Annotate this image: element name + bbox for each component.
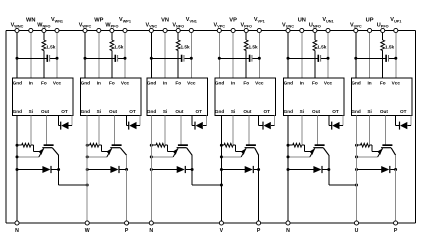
diode D1A over-temp output (59, 125, 61, 127)
wire main emitter to Gnd line (357, 156, 378, 158)
junction dot cap to Gnd line (218, 57, 221, 60)
IC U4 gate driver (V P-side) (215, 78, 275, 116)
svg-text:Gnd: Gnd (13, 109, 23, 114)
svg-text:Fo: Fo (41, 80, 47, 85)
terminal circle N (149, 221, 153, 225)
capacitor C6 decoupling VUP1 to VUPC (356, 57, 386, 59)
svg-text:1.5k: 1.5k (114, 44, 124, 49)
wire UNFO vertical upper segment (314, 31, 316, 41)
wire collector vertical (191, 155, 193, 169)
svg-text:P: P (257, 228, 261, 234)
wire main emitter to Gnd line (17, 156, 39, 158)
IC U3 gate driver (V N-side) (147, 78, 207, 116)
wire WP input vertical (98, 31, 100, 79)
resistor R6A 1.5k on UPFO line (381, 40, 385, 51)
resistor R3A 1.5k on VNFO line (176, 40, 180, 51)
wire Si pin vertical (98, 116, 100, 146)
svg-text:Vcc: Vcc (53, 80, 62, 85)
wire main emitter to Gnd line (151, 156, 173, 158)
svg-text:1.5k: 1.5k (181, 44, 191, 49)
junction dot emitter wire on Gnd line (150, 155, 153, 158)
junction dot cap to Gnd line (287, 57, 290, 60)
svg-text:Si: Si (163, 109, 167, 114)
svg-text:N: N (286, 228, 290, 234)
svg-text:Si: Si (300, 109, 304, 114)
svg-text:Fo: Fo (312, 80, 318, 85)
terminal circle P (394, 221, 398, 225)
svg-text:N: N (149, 228, 153, 234)
diode D5B freewheeling (288, 169, 314, 171)
wire VPFO vertical upper segment (245, 31, 247, 41)
junction dot cap to Gnd line (150, 57, 153, 60)
terminal circle VUPC (354, 28, 358, 32)
junction dot freewheel anode on Gnd line (355, 168, 358, 171)
wire Si pin vertical (164, 116, 166, 146)
wire sense jog to emitter (31, 144, 34, 146)
junction dot cap to Gnd line (16, 57, 19, 60)
svg-text:V: V (220, 228, 224, 234)
terminal circle VPFO (244, 28, 248, 32)
junction dot cap to Vcc line (124, 57, 127, 60)
svg-text:Gnd: Gnd (81, 109, 91, 114)
svg-text:Out: Out (380, 109, 389, 114)
wire UP input vertical (369, 31, 371, 79)
svg-text:Si: Si (367, 109, 371, 114)
svg-text:Vcc: Vcc (392, 80, 401, 85)
svg-text:OT: OT (264, 109, 271, 114)
capacitor C3 decoupling VVN1 to VVNC (151, 57, 181, 59)
junction dot sense wire on Gnd line (150, 144, 153, 147)
svg-text:OT: OT (196, 109, 203, 114)
junction dot phase node (86, 184, 89, 187)
wire OT pin right stub (273, 116, 275, 126)
wire collector vertical (258, 155, 260, 169)
resistor R2A 1.5k on WPFO line (110, 40, 114, 51)
wire collector down to P terminal (126, 170, 128, 224)
diode D1B freewheeling (17, 169, 43, 171)
wire sense jog to emitter (233, 144, 236, 146)
wire Gnd/phase line down to U terminal (356, 116, 358, 223)
junction dot freewheel cathode on collector (394, 168, 397, 171)
svg-text:Si: Si (231, 109, 235, 114)
wire sense jog to emitter (99, 144, 102, 146)
terminal circle P (125, 221, 129, 225)
diode D5A over-temp output (329, 125, 332, 127)
terminal circle VN (163, 28, 167, 32)
wire Out pin vertical (gate drive) (248, 116, 250, 145)
transistor Q2 IGBT (W P-side) (107, 144, 127, 157)
svg-text:Out: Out (312, 109, 321, 114)
wire VVNC vertical (Gnd pin to top rail) (150, 31, 152, 79)
capacitor C4 decoupling VVP1 to VVPC (219, 57, 249, 59)
svg-text:Vcc: Vcc (255, 80, 264, 85)
wire sense jog to emitter (370, 144, 373, 146)
junction dot cap to Vcc line (394, 57, 397, 60)
junction dot sense wire on Gnd line (86, 144, 89, 147)
wire right edge (top rail to bottom bus) (414, 31, 416, 224)
svg-text:In: In (97, 80, 101, 85)
diode D4B freewheeling (221, 169, 245, 171)
wire Gnd sense rail from Gnd line (221, 144, 224, 146)
wire main emitter to Gnd line (87, 156, 107, 158)
wire Si pin vertical (30, 116, 32, 146)
wire Gnd sense rail from Gnd line (288, 144, 293, 146)
terminal circle VUP1 (394, 28, 398, 32)
wire collector down to P terminal (258, 170, 260, 224)
wire Gnd/emitter line down to N terminal (150, 116, 152, 223)
svg-text:Gnd: Gnd (147, 109, 157, 114)
terminal circle WNFO (42, 28, 46, 32)
wire VVP1 vertical (258, 31, 260, 79)
wire collector vertical (395, 155, 397, 169)
svg-text:Gnd: Gnd (215, 80, 225, 85)
svg-text:Gnd: Gnd (284, 80, 294, 85)
wire WNFO vertical lower segment (43, 51, 45, 78)
wire Out pin vertical (gate drive) (180, 116, 182, 145)
wire Out pin vertical (gate drive) (317, 116, 319, 145)
svg-text:OT: OT (61, 109, 68, 114)
svg-text:OT: OT (129, 109, 136, 114)
svg-text:Vcc: Vcc (324, 80, 333, 85)
diode D6A over-temp output (396, 125, 400, 127)
wire collector vertical (58, 155, 60, 169)
diode D2A over-temp output (127, 125, 129, 127)
junction dot freewheel anode on Gnd line (150, 168, 153, 171)
svg-text:Si: Si (29, 109, 33, 114)
wire Gnd sense rail from Gnd line (17, 144, 22, 146)
wire OT pin left stub (126, 116, 128, 126)
svg-text:U: U (355, 228, 359, 234)
wire OT pin left stub (58, 116, 60, 126)
resistor R2B current sense (90, 143, 99, 147)
terminal circle VUN1 (326, 28, 330, 32)
wire OT pin left stub (258, 116, 260, 126)
terminal circle N (286, 221, 290, 225)
wire OT pin right stub (71, 116, 73, 126)
wire WNFO vertical upper segment (43, 31, 45, 41)
svg-text:N: N (15, 228, 19, 234)
wire sense jog to emitter (302, 144, 305, 146)
resistor R5B current sense (293, 143, 302, 147)
wire collector to phase node (191, 170, 193, 186)
junction dot cap to Gnd line (354, 57, 357, 60)
wire VWN1 vertical (56, 31, 58, 79)
junction dot emitter wire on Gnd line (16, 155, 19, 158)
svg-text:P: P (394, 228, 398, 234)
wire VUN1 vertical (327, 31, 329, 79)
svg-text:Fo: Fo (175, 80, 181, 85)
wire main emitter to Gnd line (288, 156, 310, 158)
junction dot sense wire on Gnd line (16, 144, 19, 147)
svg-text:In: In (300, 80, 304, 85)
svg-text:Fo: Fo (109, 80, 115, 85)
terminal circle U phase (354, 221, 358, 225)
diode D3A over-temp output (192, 125, 195, 127)
junction dot freewheel anode on Gnd line (86, 168, 89, 171)
junction dot freewheel anode on Gnd line (220, 168, 223, 171)
svg-text:1.5k: 1.5k (385, 44, 395, 49)
capacitor C1 decoupling VWN1 to VWNC (17, 57, 47, 59)
svg-text:Si: Si (97, 109, 101, 114)
resistor R4A 1.5k on VPFO line (244, 40, 248, 51)
wire OT pin right stub (410, 116, 412, 126)
transistor Q1 IGBT (W N-side) (39, 144, 59, 157)
wire OT pin left stub (395, 116, 397, 126)
wire VNFO vertical upper segment (177, 31, 179, 41)
junction dot emitter wire on Gnd line (287, 155, 290, 158)
wire Gnd sense rail from Gnd line (151, 144, 156, 146)
terminal circle WN (29, 28, 33, 32)
wire VN input vertical (164, 31, 166, 79)
svg-text:WP: WP (94, 17, 103, 23)
wire VPFO vertical lower segment (245, 51, 247, 78)
IC U5 gate driver (U N-side) (284, 78, 344, 116)
wire UNFO vertical lower segment (314, 51, 316, 78)
terminal circle P (257, 221, 261, 225)
wire Out pin vertical (gate drive) (114, 116, 116, 145)
junction dot sense wire on Gnd line (220, 144, 223, 147)
wire collector vertical (328, 155, 330, 169)
svg-text:Gnd: Gnd (81, 80, 91, 85)
terminal circle WP (97, 28, 101, 32)
wire UN input vertical (301, 31, 303, 79)
svg-text:Fo: Fo (380, 80, 386, 85)
IC U2 gate driver (W P-side) (81, 78, 141, 116)
svg-text:VN: VN (161, 17, 169, 23)
diode D2B freewheeling (87, 169, 110, 171)
svg-text:Vcc: Vcc (187, 80, 196, 85)
wire collector to phase node (328, 170, 330, 186)
terminal circle N (15, 221, 19, 225)
capacitor C2 decoupling VWP1 to VWPC (85, 57, 115, 59)
junction dot freewheel cathode on collector (191, 168, 194, 171)
IC U6 gate driver (U P-side) (351, 78, 411, 116)
wire OT pin left stub (328, 116, 330, 126)
diode D4A over-temp output (259, 125, 264, 127)
wire VVPC vertical (Gnd pin to top rail) (218, 31, 220, 79)
wire OT pin right stub (139, 116, 141, 126)
wire Out pin vertical (gate drive) (385, 116, 387, 145)
terminal circle VVNC (149, 28, 153, 32)
wire WPFO vertical lower segment (111, 51, 113, 78)
svg-text:Out: Out (175, 109, 184, 114)
wire VVN1 vertical (190, 31, 192, 79)
junction dot freewheel cathode on collector (125, 168, 128, 171)
wire bottom bus (6, 222, 415, 224)
junction dot cap to Vcc line (258, 57, 261, 60)
transistor Q3 IGBT (V N-side) (173, 144, 192, 157)
wire VNFO vertical lower segment (177, 51, 179, 78)
wire Gnd/emitter line down to N terminal (16, 116, 18, 223)
wire OT pin right stub (342, 116, 344, 126)
junction dot sense wire on Gnd line (287, 144, 290, 147)
svg-text:1.5k: 1.5k (317, 44, 327, 49)
wire Gnd/phase line down to W terminal (86, 116, 88, 223)
svg-text:Gnd: Gnd (351, 80, 361, 85)
junction dot freewheel cathode on collector (57, 168, 60, 171)
junction dot cap to Gnd line (84, 57, 87, 60)
junction dot cap to Vcc line (190, 57, 193, 60)
terminal circle W phase (85, 221, 89, 225)
terminal circle UP (368, 28, 372, 32)
svg-text:P: P (125, 228, 129, 234)
transistor Q6 IGBT (U P-side) (377, 144, 395, 157)
svg-text:UN: UN (298, 17, 306, 23)
wire VWP1 vertical (124, 31, 126, 79)
svg-text:Gnd: Gnd (351, 109, 361, 114)
wire sense jog to emitter (165, 144, 168, 146)
wire VUPC vertical (Gnd pin to top rail) (355, 31, 357, 79)
terminal circle VUNC (286, 28, 290, 32)
svg-text:Out: Out (243, 109, 252, 114)
wire Gnd sense rail from Gnd line (87, 144, 89, 146)
junction dot emitter wire on Gnd line (86, 155, 89, 158)
terminal circle WPFO (110, 28, 114, 32)
wire Gnd/emitter line down to N terminal (287, 116, 289, 223)
resistor R3B current sense (156, 143, 165, 147)
terminal circle VP (231, 28, 235, 32)
svg-text:1.5k: 1.5k (249, 44, 259, 49)
wire UPFO vertical upper segment (382, 31, 384, 41)
wire left edge (top rail to N bus) (5, 31, 7, 224)
junction dot freewheel cathode on collector (257, 168, 260, 171)
junction dot freewheel anode on Gnd line (287, 168, 290, 171)
junction dot phase node (355, 184, 358, 187)
wire main emitter to Gnd line (221, 156, 241, 158)
svg-text:Gnd: Gnd (13, 80, 23, 85)
wire top rail (6, 30, 415, 32)
junction dot cap to Vcc line (327, 57, 330, 60)
junction dot cap to Vcc line (56, 57, 59, 60)
svg-text:Vcc: Vcc (121, 80, 130, 85)
svg-text:1.5k: 1.5k (46, 44, 56, 49)
svg-text:WN: WN (26, 17, 35, 23)
svg-text:Gnd: Gnd (284, 109, 294, 114)
svg-text:UP: UP (366, 17, 374, 23)
resistor R1B current sense (22, 143, 31, 147)
junction dot freewheel anode on Gnd line (16, 168, 19, 171)
terminal circle VNFO (176, 28, 180, 32)
svg-text:Out: Out (109, 109, 118, 114)
terminal circle VWNC (15, 28, 19, 32)
IC U1 gate driver (W N-side) (13, 78, 73, 116)
transistor Q5 IGBT (U N-side) (310, 144, 329, 157)
wire Si pin vertical (232, 116, 234, 146)
wire collector down to P terminal (395, 170, 397, 224)
svg-text:OT: OT (400, 109, 407, 114)
resistor R1A 1.5k on WNFO line (42, 40, 46, 51)
svg-text:Fo: Fo (243, 80, 249, 85)
svg-text:Gnd: Gnd (215, 109, 225, 114)
wire Gnd/phase line down to V terminal (220, 116, 222, 223)
junction dot sense wire on Gnd line (355, 144, 358, 147)
svg-text:Gnd: Gnd (147, 80, 157, 85)
resistor R6B current sense (360, 143, 369, 147)
wire VP input vertical (232, 31, 234, 79)
terminal circle UPFO (381, 28, 385, 32)
terminal circle V phase (219, 221, 223, 225)
wire OT pin right stub (205, 116, 207, 126)
resistor R4B current sense (224, 143, 233, 147)
junction dot emitter wire on Gnd line (355, 155, 358, 158)
junction dot freewheel cathode on collector (327, 168, 330, 171)
wire VUP1 vertical (395, 31, 397, 79)
wire VWNC vertical (Gnd pin to top rail) (16, 31, 18, 79)
terminal circle VWN1 (55, 28, 59, 32)
wire Out pin vertical (gate drive) (46, 116, 48, 145)
wire Si pin vertical (301, 116, 303, 146)
wire UPFO vertical lower segment (382, 51, 384, 78)
junction dot emitter wire on Gnd line (220, 155, 223, 158)
diode D3B freewheeling (151, 169, 177, 171)
wire collector to phase node (58, 170, 60, 186)
diode D6B freewheeling (357, 169, 382, 171)
resistor R5A 1.5k on UNFO line (313, 40, 317, 51)
terminal circle UNFO (313, 28, 317, 32)
svg-text:VP: VP (229, 17, 237, 23)
svg-text:W: W (85, 228, 90, 234)
wire OT pin left stub (191, 116, 193, 126)
svg-text:In: In (231, 80, 235, 85)
svg-text:In: In (163, 80, 167, 85)
wire collector vertical (126, 155, 128, 169)
wire VWPC vertical (Gnd pin to top rail) (84, 31, 86, 79)
wire Gnd sense rail from Gnd line (357, 144, 361, 146)
svg-text:OT: OT (332, 109, 339, 114)
wire Si pin vertical (369, 116, 371, 146)
svg-text:In: In (29, 80, 33, 85)
wire WPFO vertical upper segment (111, 31, 113, 41)
wire WN input vertical (30, 31, 32, 79)
terminal circle VVPC (217, 28, 221, 32)
terminal circle UN (300, 28, 304, 32)
svg-text:Out: Out (41, 109, 50, 114)
transistor Q4 IGBT (V P-side) (241, 144, 259, 157)
terminal circle VVP1 (257, 28, 261, 32)
terminal circle VWP1 (123, 28, 127, 32)
terminal circle VWPC (83, 28, 87, 32)
capacitor C5 decoupling VUN1 to VUNC (288, 57, 318, 59)
terminal circle VVN1 (189, 28, 193, 32)
wire VUNC vertical (Gnd pin to top rail) (287, 31, 289, 79)
svg-text:In: In (368, 80, 372, 85)
junction dot phase node (220, 184, 223, 187)
